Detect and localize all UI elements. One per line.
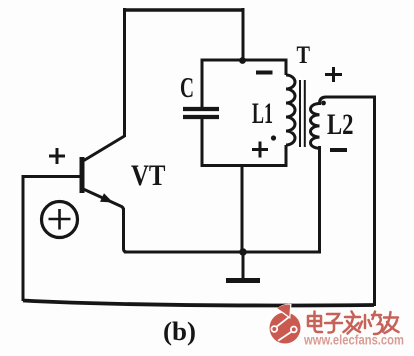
wire tank bottom drop: [241, 165, 244, 252]
polarity plus L2 top: [325, 67, 342, 82]
polarity plus tank bottom: [252, 142, 268, 158]
svg-text:L2: L2: [327, 108, 354, 141]
char dian: [308, 312, 322, 333]
wire tank left upper: [201, 59, 204, 108]
wire collector riser: [123, 8, 126, 137]
wire right riser: [373, 97, 376, 306]
wire top rail: [124, 8, 243, 12]
wire tank right lower: [285, 145, 288, 167]
capacitor C: [183, 109, 219, 117]
polarity minus L2 bottom: [330, 148, 347, 152]
source symbol: [42, 202, 78, 238]
inductor L1: [286, 75, 295, 145]
wire L2 top: [326, 96, 376, 99]
svg-text:L1: L1: [252, 97, 273, 130]
char you: [383, 312, 399, 333]
wire bottom rail: [23, 301, 374, 306]
wire base: [23, 175, 80, 178]
wire tank top side: [201, 59, 288, 62]
watermark text dianzifashaoyou: [308, 312, 399, 335]
char shao: [359, 312, 383, 335]
char fa: [344, 312, 361, 334]
transformer core T: [300, 80, 305, 147]
transistor VT: [81, 157, 124, 210]
node junction ground: [239, 248, 247, 256]
wire tank bottom side: [201, 164, 288, 167]
char zi: [325, 314, 342, 333]
node junction tank top: [239, 57, 246, 64]
wire tank right upper: [285, 59, 288, 76]
wire tank top feed: [242, 8, 245, 60]
wire L2 bottom drop: [318, 146, 321, 252]
wire ground rail: [124, 251, 321, 254]
inductor L2: [311, 97, 327, 148]
wire emitter drop: [124, 208, 128, 252]
wire left drop: [22, 175, 25, 301]
wire tank left lower: [201, 119, 204, 167]
wire collector diagonal: [83, 136, 125, 161]
svg-text:(b): (b): [163, 317, 196, 346]
polarity minus tank top: [256, 71, 273, 75]
svg-text:T: T: [297, 42, 311, 69]
svg-text:C: C: [180, 73, 194, 104]
svg-text:www.elecfans.com: www.elecfans.com: [303, 333, 404, 348]
node polarity dot L1: [271, 135, 276, 140]
ground symbol: [226, 252, 260, 281]
node polarity dot L2: [321, 101, 326, 106]
svg-text:VT: VT: [131, 159, 166, 192]
watermark logo: [270, 304, 301, 344]
polarity plus at base: [49, 148, 65, 164]
